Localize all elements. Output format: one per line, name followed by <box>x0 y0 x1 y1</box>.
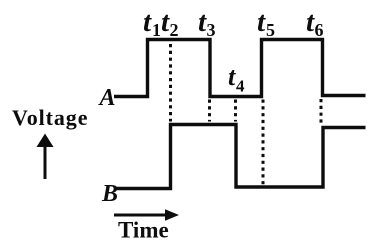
svg-text:Time: Time <box>118 218 169 243</box>
time axis arrow <box>114 209 179 220</box>
dotted marker t3 <box>208 100 211 122</box>
dotted marker t4 <box>234 100 237 122</box>
svg-text:B: B <box>101 181 118 207</box>
dotted marker t6 <box>320 99 323 125</box>
waveform B <box>115 125 366 189</box>
svg-text:1: 1 <box>152 20 161 40</box>
svg-text:3: 3 <box>207 20 216 40</box>
dotted marker t5 <box>262 100 265 187</box>
svg-text:t: t <box>257 6 266 38</box>
svg-text:A: A <box>98 85 116 111</box>
dotted marker t2 <box>169 44 172 122</box>
label t3 <box>198 6 216 40</box>
voltage axis arrow <box>37 134 54 180</box>
label t6 <box>306 6 324 40</box>
svg-text:t: t <box>143 6 152 38</box>
svg-text:6: 6 <box>315 20 324 40</box>
label t5 <box>257 6 275 40</box>
label t2 <box>161 6 179 40</box>
svg-text:Voltage: Voltage <box>12 105 88 130</box>
svg-text:5: 5 <box>266 20 275 40</box>
svg-text:2: 2 <box>170 20 179 40</box>
label t1 <box>143 6 161 40</box>
label t4 <box>228 62 245 96</box>
waveform A <box>114 40 366 97</box>
svg-text:4: 4 <box>236 77 245 96</box>
svg-text:t: t <box>228 62 236 91</box>
